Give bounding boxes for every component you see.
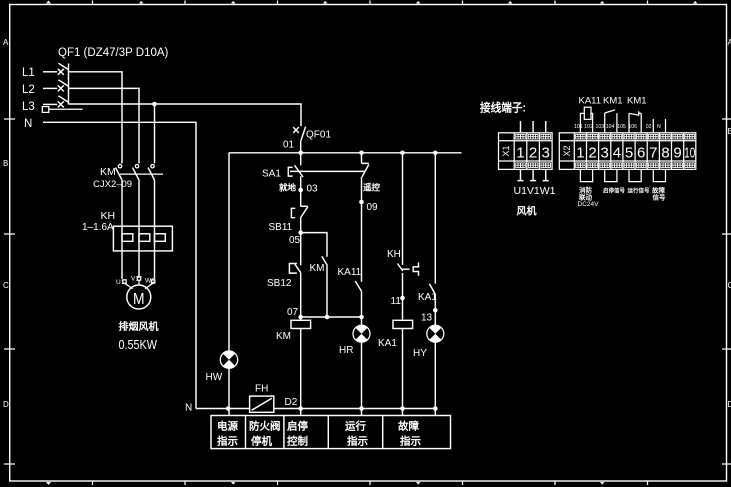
node 09	[359, 200, 364, 205]
svg-text:M: M	[133, 291, 145, 308]
wire HW branch	[228, 153, 230, 416]
motor M circle	[127, 285, 151, 309]
svg-text:SA1: SA1	[262, 169, 281, 180]
top ruler ticks	[46, 1, 697, 5]
label 防火阀停机	[249, 420, 281, 448]
svg-text:02: 02	[646, 124, 652, 130]
svg-text:1–1.6A: 1–1.6A	[82, 222, 114, 233]
svg-text:104: 104	[606, 124, 615, 130]
node L3 junction	[152, 102, 157, 107]
svg-text:KA1: KA1	[418, 292, 437, 303]
svg-text:7: 7	[649, 145, 657, 162]
svg-text:KM1: KM1	[627, 96, 647, 107]
wire L3 out	[69, 104, 302, 126]
pushbutton SB11	[291, 206, 307, 232]
contactor KM link bar	[120, 173, 163, 175]
svg-text:09: 09	[367, 202, 379, 213]
svg-text:8: 8	[661, 145, 669, 162]
svg-text:103: 103	[596, 124, 605, 130]
svg-text:X1: X1	[501, 145, 511, 156]
node dot bus-KA1	[433, 151, 438, 156]
svg-text:D: D	[3, 400, 9, 409]
svg-text:N: N	[185, 403, 192, 414]
X1 top stubs	[521, 121, 546, 133]
node dot bus-remote	[359, 151, 364, 156]
coil KA1	[393, 320, 413, 408]
pushbutton SB12	[289, 233, 300, 317]
svg-text:13: 13	[421, 313, 433, 324]
wire L2 out	[69, 88, 140, 162]
node dot bus-KH	[400, 151, 405, 156]
svg-text:停机: 停机	[251, 435, 272, 448]
svg-text:信号: 信号	[653, 193, 667, 202]
svg-text:KA11: KA11	[338, 267, 362, 278]
svg-text:A: A	[3, 38, 9, 47]
svg-text:B: B	[3, 159, 8, 168]
motor terminal marks U1 V1 W1	[116, 276, 155, 289]
node dot bus-QF01	[298, 151, 303, 156]
svg-text:KM1: KM1	[603, 96, 623, 107]
svg-text:2: 2	[529, 145, 537, 162]
N bus bottom	[196, 408, 437, 410]
svg-text:U1V1W1: U1V1W1	[514, 185, 556, 197]
svg-text:QF1 (DZ47/3P D10A): QF1 (DZ47/3P D10A)	[58, 47, 169, 59]
svg-text:指示: 指示	[217, 435, 238, 448]
breaker QF01	[293, 127, 305, 153]
svg-text:故障: 故障	[398, 420, 419, 433]
svg-text:3: 3	[542, 145, 550, 162]
stubs to function table	[301, 409, 436, 416]
svg-text:4: 4	[613, 145, 621, 162]
lamp HR	[353, 317, 370, 409]
lamp HY	[427, 310, 444, 408]
svg-text:U1: U1	[116, 279, 125, 286]
svg-text:2: 2	[588, 145, 596, 162]
svg-text:N: N	[657, 124, 661, 130]
svg-text:HY: HY	[413, 348, 427, 359]
node 13	[433, 308, 438, 313]
node 03	[298, 188, 303, 193]
wire 05 to KM aux	[301, 233, 327, 257]
wire motor leads	[122, 251, 155, 279]
svg-text:遥控: 遥控	[363, 183, 381, 193]
contact KM1 b above X2	[629, 111, 641, 133]
coil KA11 above X2	[580, 107, 592, 133]
lamp HW	[220, 351, 237, 369]
svg-text:HR: HR	[339, 345, 353, 356]
label 故障指示	[398, 420, 421, 448]
svg-text:接线端子:: 接线端子:	[480, 101, 526, 115]
svg-text:102: 102	[584, 124, 593, 130]
svg-text:W1: W1	[145, 278, 155, 285]
label 故障信号	[652, 186, 666, 202]
svg-text:3: 3	[601, 145, 609, 162]
svg-text:运行: 运行	[345, 420, 366, 433]
svg-text:SB12: SB12	[267, 278, 292, 289]
svg-text:A: A	[728, 38, 731, 47]
contact KH	[398, 153, 419, 320]
node 11	[400, 296, 405, 301]
svg-text:控制: 控制	[287, 435, 308, 448]
svg-text:运行信号: 运行信号	[628, 187, 651, 195]
svg-text:X2: X2	[562, 145, 572, 156]
svg-text:防火阀: 防火阀	[249, 420, 281, 433]
thermal relay KH box	[113, 226, 172, 251]
svg-text:03: 03	[307, 184, 319, 195]
svg-text:105: 105	[617, 124, 626, 130]
label 启停控制	[287, 420, 308, 448]
svg-text:10: 10	[684, 145, 695, 162]
breaker QF1 pole L3	[43, 96, 69, 108]
terminal block X2	[559, 133, 696, 170]
svg-text:6: 6	[637, 145, 645, 162]
X2 wire numbers	[574, 124, 661, 130]
selector SA1	[288, 153, 303, 207]
selector SA1 remote blade	[362, 153, 369, 282]
breaker QF1 link bar	[68, 64, 70, 105]
bus 01	[229, 152, 462, 154]
node 07 row	[301, 316, 362, 318]
wire L3 drop	[154, 104, 156, 162]
bottom ruler ticks	[46, 481, 648, 485]
selector SA1 link bar	[290, 170, 365, 172]
svg-text:D: D	[728, 400, 731, 409]
svg-text:风机: 风机	[517, 205, 537, 218]
svg-text:07: 07	[287, 307, 299, 318]
svg-text:指示: 指示	[400, 435, 421, 448]
svg-text:KA11: KA11	[579, 96, 602, 107]
svg-text:FH: FH	[255, 384, 268, 395]
X2 screw symbols	[576, 134, 695, 167]
coil KM	[291, 317, 311, 409]
svg-text:消防: 消防	[579, 186, 593, 195]
svg-text:KH: KH	[387, 249, 401, 260]
function table	[211, 416, 451, 449]
X1 terminal numbers	[516, 145, 550, 162]
svg-text:C: C	[728, 281, 731, 290]
svg-text:就地: 就地	[279, 183, 297, 193]
X2 terminal numbers	[576, 145, 695, 162]
svg-text:QF01: QF01	[306, 130, 331, 141]
svg-text:KM: KM	[276, 331, 291, 342]
terminal block X1	[499, 133, 553, 170]
svg-text:启停信号: 启停信号	[603, 187, 626, 195]
svg-text:D2: D2	[285, 397, 298, 408]
X2 bottom bracket 3-4	[605, 169, 617, 181]
svg-text:KM: KM	[310, 263, 325, 274]
svg-text:CJX2–09: CJX2–09	[93, 179, 132, 190]
svg-text:SB11: SB11	[269, 222, 293, 233]
contactor KM pole 1	[116, 162, 123, 226]
contact KA11	[355, 281, 361, 317]
left zone ticks and letters	[3, 38, 15, 464]
X2 bottom bracket 5-6	[629, 169, 641, 181]
svg-text:N: N	[24, 118, 32, 130]
node dots on N bus	[226, 406, 231, 411]
svg-text:DC24V: DC24V	[578, 201, 600, 208]
svg-text:KM: KM	[100, 166, 116, 178]
svg-text:1: 1	[576, 145, 584, 162]
svg-text:故障: 故障	[652, 186, 666, 195]
svg-text:指示: 指示	[347, 435, 368, 448]
wire L1 out	[69, 72, 123, 162]
right zone ticks and letters	[722, 38, 731, 464]
contactor KM pole 2	[133, 162, 140, 226]
node 05	[298, 230, 303, 235]
X1 screw symbols	[516, 134, 551, 167]
terminal box on L3 row	[42, 107, 82, 113]
svg-text:5: 5	[625, 145, 633, 162]
contact KM1 a above X2	[605, 110, 617, 133]
svg-text:1: 1	[516, 145, 524, 162]
X2 bottom bracket 7-8	[653, 169, 665, 181]
svg-text:启停: 启停	[287, 420, 308, 433]
contact KM aux	[322, 256, 327, 317]
svg-text:KH: KH	[101, 210, 116, 222]
svg-text:01: 01	[283, 140, 295, 151]
label 运行指示	[345, 420, 368, 448]
label 电源指示	[217, 420, 238, 448]
svg-text:101: 101	[574, 124, 583, 130]
svg-text:KA1: KA1	[378, 338, 397, 349]
svg-text:HW: HW	[206, 372, 223, 383]
svg-text:11: 11	[391, 296, 402, 307]
X1 bottom leads	[518, 169, 549, 180]
svg-text:106: 106	[628, 124, 637, 130]
svg-text:L2: L2	[22, 84, 35, 96]
breaker QF1 pole L2	[43, 80, 69, 92]
contactor KM pole 3	[148, 162, 155, 226]
breaker QF1 pole L1	[43, 63, 69, 75]
svg-text:0.55KW: 0.55KW	[119, 337, 158, 352]
label 消防联动DC24V	[578, 186, 600, 209]
label QF1	[58, 47, 169, 59]
fire damper FH box	[250, 396, 274, 412]
stubs above terminals 7 8	[653, 119, 665, 133]
svg-text:V1: V1	[131, 276, 139, 283]
svg-text:L3: L3	[22, 101, 35, 113]
wire N	[43, 122, 196, 408]
svg-text:L1: L1	[22, 67, 35, 79]
svg-text:C: C	[3, 281, 9, 290]
svg-text:排烟风机: 排烟风机	[119, 320, 159, 333]
svg-text:B: B	[728, 127, 731, 136]
svg-text:05: 05	[289, 235, 301, 246]
svg-text:电源: 电源	[217, 420, 238, 433]
contact KA1	[429, 153, 435, 310]
svg-text:9: 9	[673, 145, 681, 162]
X2 bottom bracket 1-2	[580, 169, 592, 181]
